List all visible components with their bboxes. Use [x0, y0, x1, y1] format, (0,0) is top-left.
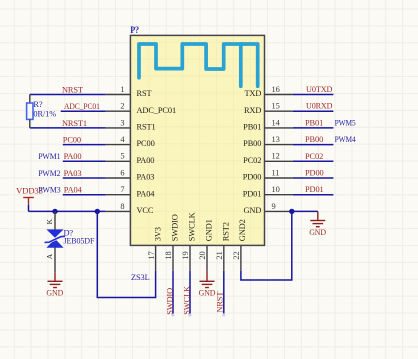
svg-text:NRST1: NRST1 [62, 119, 87, 128]
svg-text:PC02: PC02 [305, 152, 323, 161]
svg-text:PWM3: PWM3 [38, 186, 60, 195]
svg-text:13: 13 [272, 135, 280, 144]
pin 15 [265, 110, 293, 112]
svg-text:PA03: PA03 [137, 173, 155, 182]
wire ADC_PC01 row2 [61, 110, 106, 112]
antenna squarewave graphic inside IC [139, 44, 258, 86]
pin 14 [265, 127, 293, 129]
pin 6 [106, 177, 131, 179]
wire PB01 row14 [293, 127, 334, 129]
svg-text:15: 15 [272, 102, 280, 111]
pin 19 [189, 245, 191, 270]
wire pin9 GND net [293, 210, 318, 212]
wire pin19 SWCLK stub [189, 271, 191, 314]
svg-text:U0RXD: U0RXD [306, 102, 332, 111]
wire NRST row1 [30, 94, 106, 96]
svg-text:0R/1%: 0R/1% [33, 109, 56, 118]
svg-text:18: 18 [164, 251, 173, 259]
IC body U P? [130, 35, 264, 245]
svg-text:PB00: PB00 [243, 139, 261, 148]
pin 13 [265, 144, 293, 146]
svg-text:PA03: PA03 [64, 169, 82, 178]
junction on row8 at ZS3L branch [95, 209, 100, 214]
resistor top pin [29, 95, 31, 104]
svg-text:PC00: PC00 [137, 139, 155, 148]
diode top triangle [46, 229, 63, 237]
junction on row8 at resistor-diode node [52, 209, 57, 214]
svg-text:GND: GND [46, 289, 63, 298]
svg-text:A: A [45, 253, 54, 259]
svg-text:3: 3 [120, 118, 124, 127]
svg-text:PB00: PB00 [305, 135, 323, 144]
pin 18 [172, 245, 174, 270]
svg-text:GND: GND [199, 289, 216, 298]
svg-text:PWM2: PWM2 [38, 169, 60, 178]
wire pin21 NRST stub [223, 271, 225, 314]
svg-text:PD01: PD01 [305, 185, 324, 194]
pin 5 [106, 160, 131, 162]
svg-text:PD00: PD00 [243, 173, 262, 182]
svg-text:PD01: PD01 [243, 189, 262, 198]
svg-text:17: 17 [147, 251, 156, 259]
svg-text:PD00: PD00 [305, 169, 324, 178]
pin 16 [265, 94, 293, 96]
svg-text:GND2: GND2 [238, 219, 247, 241]
pin 8 [106, 210, 131, 212]
wire PB00 row13 [293, 144, 334, 146]
resistor bottom pin [29, 119, 31, 128]
svg-text:22: 22 [232, 251, 241, 259]
svg-text:VCC: VCC [137, 206, 154, 215]
diode stem bottom (A) [54, 247, 56, 273]
wire PA04 row7 [63, 194, 106, 196]
pin 17 [155, 245, 157, 270]
junction at pin9 GND node [289, 209, 294, 214]
wire VDD33 to VCC row8 [29, 210, 106, 212]
svg-text:21: 21 [215, 251, 224, 259]
wire PA03 row6 [63, 177, 106, 179]
pin 22 [240, 245, 242, 270]
svg-text:20: 20 [198, 251, 207, 259]
pin 20 [206, 245, 208, 270]
svg-text:ADC_PC01: ADC_PC01 [137, 106, 177, 115]
svg-text:SWCLK: SWCLK [183, 286, 192, 315]
svg-text:1: 1 [120, 85, 124, 94]
pin 11 [265, 177, 293, 179]
svg-text:NRST: NRST [62, 85, 83, 94]
svg-text:11: 11 [272, 168, 280, 177]
svg-text:PA04: PA04 [137, 189, 156, 198]
pin 12 [265, 160, 293, 162]
svg-text:SWDIO: SWDIO [166, 288, 175, 315]
wire pin22 GND2 to GND net [241, 211, 292, 280]
resistor body [27, 103, 33, 119]
wire VDD33 stem lower part [28, 205, 30, 212]
svg-text:PWM1: PWM1 [38, 152, 60, 161]
wire PC00 row4 [63, 144, 106, 146]
svg-text:P?: P? [130, 25, 139, 35]
dangling wire end marker pin21 [222, 314, 225, 316]
wire ZS3L net: junction on row8 down and right to pin17 [97, 211, 155, 297]
svg-text:PC02: PC02 [243, 156, 261, 165]
pin 4 [106, 144, 131, 146]
diode bottom triangle [46, 239, 63, 248]
wire PC02 row12 [293, 160, 334, 162]
svg-text:PA00: PA00 [137, 156, 155, 165]
svg-text:6: 6 [120, 168, 124, 177]
svg-text:TXD: TXD [244, 89, 261, 98]
svg-text:12: 12 [272, 152, 280, 161]
pin 7 [106, 194, 131, 196]
svg-text:7: 7 [120, 185, 124, 194]
svg-text:RST2: RST2 [221, 222, 230, 241]
svg-text:5: 5 [120, 152, 124, 161]
diode zener crossbar [45, 236, 66, 242]
svg-text:PB01: PB01 [243, 123, 261, 132]
svg-text:RST1: RST1 [137, 123, 156, 132]
svg-text:4: 4 [120, 135, 125, 144]
pin 2 [106, 110, 131, 112]
svg-text:RXD: RXD [244, 106, 261, 115]
svg-text:PWM4: PWM4 [335, 135, 357, 144]
svg-text:NRST: NRST [215, 292, 224, 313]
pin 9 [265, 210, 293, 212]
pin 1 [106, 94, 131, 96]
svg-text:JEB05DF: JEB05DF [64, 237, 95, 246]
svg-text:RST: RST [137, 89, 152, 98]
svg-text:PWM5: PWM5 [335, 118, 356, 127]
svg-text:2: 2 [120, 102, 124, 111]
wire pin18 SWDIO stub [172, 271, 174, 314]
wire PD00 row11 [293, 177, 334, 179]
svg-text:PA00: PA00 [64, 152, 82, 161]
svg-text:GND: GND [309, 228, 326, 237]
diode stem top (K) [54, 211, 56, 231]
svg-text:16: 16 [272, 85, 280, 94]
svg-text:GND1: GND1 [204, 219, 213, 241]
svg-text:3V3: 3V3 [153, 227, 162, 241]
svg-text:R?: R? [33, 100, 42, 109]
wire PA00 row5 [63, 160, 106, 162]
svg-text:PB01: PB01 [305, 118, 323, 127]
wire U0RXD row15 [293, 110, 334, 112]
svg-text:PA04: PA04 [64, 186, 83, 195]
svg-text:9: 9 [272, 202, 276, 211]
pin 3 [106, 127, 131, 129]
svg-text:ZS3L: ZS3L [131, 273, 150, 282]
svg-text:19: 19 [181, 251, 190, 259]
svg-text:ADC_PC01: ADC_PC01 [64, 102, 100, 111]
svg-text:8: 8 [120, 202, 124, 211]
wire PD01 row10 [293, 194, 334, 196]
pin 10 [265, 194, 293, 196]
svg-text:PC00: PC00 [63, 136, 81, 145]
svg-text:U0TXD: U0TXD [306, 85, 332, 94]
dangling wire end marker pin18 [172, 314, 175, 316]
pin 21 [223, 245, 225, 270]
svg-text:SWDIO: SWDIO [170, 214, 179, 241]
svg-text:SWCLK: SWCLK [187, 212, 196, 241]
svg-text:GND: GND [244, 206, 262, 215]
dangling wire end marker pin19 [189, 314, 192, 316]
svg-text:14: 14 [272, 118, 281, 127]
svg-text:K: K [45, 218, 54, 224]
svg-text:10: 10 [272, 185, 280, 194]
wire NRST1 row3 [30, 127, 106, 129]
wire U0TXD row16 [293, 94, 334, 96]
